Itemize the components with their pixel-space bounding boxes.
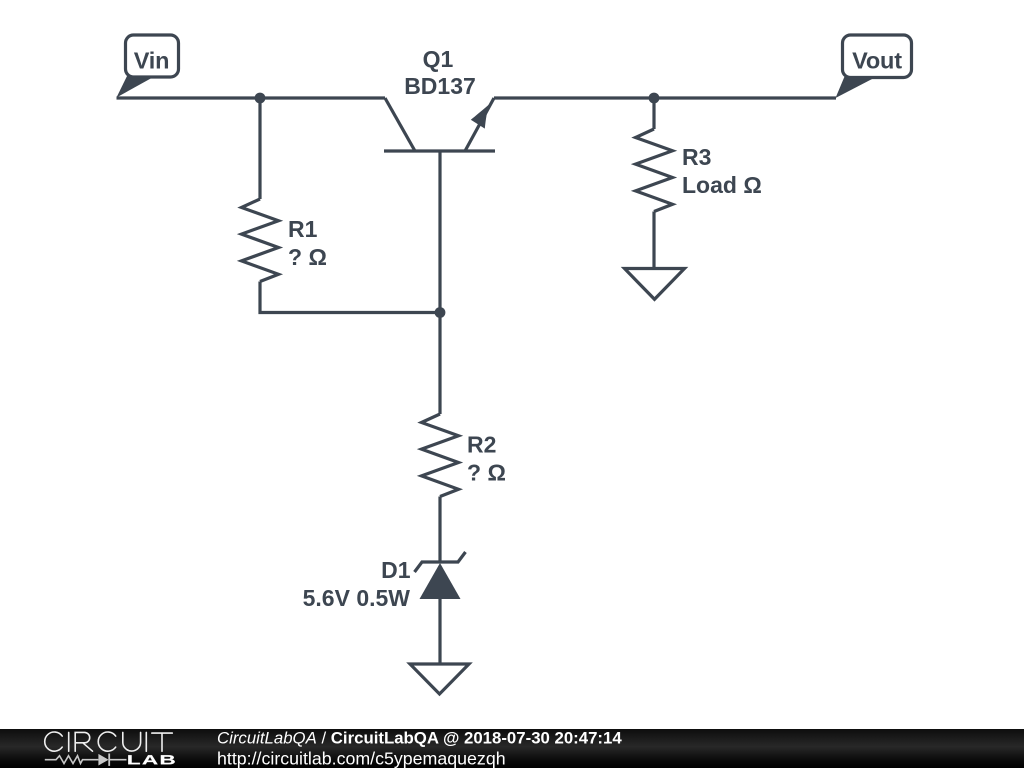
ground under R3 — [625, 269, 685, 300]
wire R2 to D1 cathode — [438, 497, 441, 563]
svg-text:? Ω: ? Ω — [467, 460, 506, 486]
svg-text:BD137: BD137 — [404, 73, 476, 99]
svg-text:http://circuitlab.com/c5ypemaq: http://circuitlab.com/c5ypemaquezqh — [217, 748, 506, 768]
svg-text:Load Ω: Load Ω — [682, 172, 762, 198]
svg-text:CircuitLabQA / CircuitLabQA @: CircuitLabQA / CircuitLabQA @ 2018-07-30… — [217, 729, 622, 748]
wire D1 anode to ground — [438, 599, 441, 664]
transistor Q1 — [384, 98, 495, 314]
footer credit line — [217, 729, 622, 748]
zener diode D1 — [415, 552, 466, 599]
svg-text:? Ω: ? Ω — [288, 244, 327, 270]
wire Vin to Q1 collector (net Vin) — [117, 96, 386, 99]
resistor R2 — [422, 414, 459, 497]
resistor R3 — [636, 129, 673, 212]
wire R1 bottom to base node — [260, 282, 440, 313]
flag Vout — [836, 35, 912, 98]
wire Vout node down to R3 — [652, 98, 655, 129]
logo resistor glyph — [45, 756, 99, 764]
logo LAB text — [128, 755, 174, 764]
ground under D1 — [410, 664, 469, 694]
wire base node down to R2 — [438, 313, 441, 415]
wire Vin node down to R1 — [258, 98, 261, 199]
wire R3 to ground — [652, 212, 655, 269]
flag Vin — [117, 35, 179, 98]
svg-text:Q1: Q1 — [423, 46, 454, 72]
svg-text:D1: D1 — [381, 557, 411, 583]
svg-text:R2: R2 — [467, 432, 496, 458]
footer bar — [0, 729, 1024, 768]
footer url line — [217, 748, 506, 768]
CircuitLab logo CIRCUIT — [45, 732, 173, 751]
wire Q1 emitter to Vout (net Vout) — [494, 96, 836, 99]
resistor R1 — [242, 199, 279, 282]
junction node Vin/R1 — [255, 93, 266, 104]
svg-text:5.6V 0.5W: 5.6V 0.5W — [303, 585, 411, 611]
svg-text:R3: R3 — [682, 144, 711, 170]
svg-text:Vout: Vout — [852, 48, 902, 74]
logo diode glyph — [98, 754, 126, 766]
svg-text:R1: R1 — [288, 216, 318, 242]
svg-text:Vin: Vin — [134, 48, 170, 74]
junction node R1/R2/base — [435, 307, 446, 318]
junction node Vout/R3 — [649, 93, 660, 104]
